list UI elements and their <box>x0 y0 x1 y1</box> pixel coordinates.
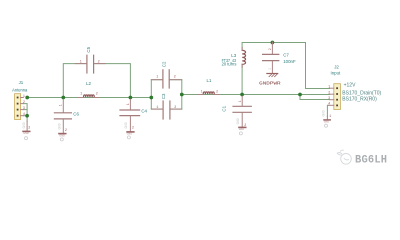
svg-text:1: 1 <box>80 60 82 64</box>
svg-text:J1: J1 <box>19 80 24 85</box>
svg-text:GND: GND <box>237 118 241 124</box>
svg-text:2: 2 <box>174 106 176 110</box>
svg-text:3: 3 <box>328 97 330 101</box>
wire main right net y=94.4 <box>182 94 330 96</box>
node C4 <box>129 96 133 100</box>
wire +12V down to J2 pin1 <box>306 43 330 89</box>
svg-text:1: 1 <box>156 76 158 80</box>
svg-text:C2: C2 <box>162 61 167 67</box>
wire C2 branch <box>151 79 163 81</box>
connector J2 <box>328 64 381 109</box>
svg-text:2: 2 <box>132 127 134 131</box>
svg-text:C6: C6 <box>73 111 79 116</box>
svg-text:GND: GND <box>127 133 133 136</box>
svg-text:2: 2 <box>216 91 218 95</box>
svg-text:GND: GND <box>59 123 63 129</box>
svg-text:Input: Input <box>331 71 342 76</box>
wire tank2 left vertical <box>150 80 152 109</box>
svg-text:2: 2 <box>65 129 67 133</box>
svg-text:2: 2 <box>28 127 30 131</box>
node J1 pin1 <box>25 96 29 100</box>
capacitor C1 <box>221 96 251 112</box>
svg-text:1: 1 <box>23 95 25 99</box>
svg-text:4: 4 <box>328 103 330 107</box>
svg-text:2: 2 <box>174 76 176 80</box>
node J1 pin4 <box>25 114 29 118</box>
inductor L3 (vertical) <box>242 50 245 64</box>
node C6 <box>61 96 65 100</box>
ground GND at J1 <box>23 121 30 139</box>
svg-text:2: 2 <box>23 101 25 105</box>
capacitor C4 <box>120 99 148 115</box>
wire C3 branch <box>151 108 163 110</box>
capacitor C5 <box>75 46 105 73</box>
svg-text:C3: C3 <box>161 93 166 99</box>
svg-text:1: 1 <box>127 103 131 105</box>
svg-text:1: 1 <box>329 115 331 119</box>
svg-text:4: 4 <box>23 113 25 117</box>
svg-text:C5: C5 <box>86 46 91 52</box>
watermark logo <box>337 150 351 164</box>
svg-text:C4: C4 <box>141 108 147 113</box>
svg-text:2: 2 <box>96 92 98 96</box>
svg-text:20 turns: 20 turns <box>222 62 238 67</box>
svg-text:J2: J2 <box>334 64 339 69</box>
node J2 branch <box>298 93 302 97</box>
wire main left net y=97.5 <box>27 97 151 99</box>
wire tank2 right vertical <box>181 80 183 109</box>
capacitor C3 <box>152 93 181 119</box>
svg-text:+12V: +12V <box>344 83 356 89</box>
svg-text:C7: C7 <box>283 53 289 58</box>
node +12V/C7 <box>271 41 275 45</box>
wire C5 branch left vertical <box>63 64 87 98</box>
svg-text:GND: GND <box>239 128 245 131</box>
wire L3 vertical to +12V rail <box>241 64 243 94</box>
svg-text:GND: GND <box>59 134 65 137</box>
svg-text:L1: L1 <box>207 78 212 83</box>
svg-text:100nF: 100nF <box>283 59 296 64</box>
inductor L2 <box>84 95 95 98</box>
ground GND at J2 <box>322 110 331 127</box>
svg-text:BS170_RX(R0): BS170_RX(R0) <box>342 97 377 103</box>
svg-text:3: 3 <box>23 107 25 111</box>
inductor L1 <box>203 92 214 95</box>
svg-text:1: 1 <box>80 92 82 96</box>
svg-text:1: 1 <box>156 106 158 110</box>
node tank2 right <box>180 93 184 97</box>
wire C5 branch right <box>94 64 131 98</box>
wire J1 pins 2-4 bus <box>23 104 27 122</box>
connector J1 <box>12 80 28 119</box>
svg-text:GND: GND <box>322 110 326 116</box>
svg-text:Antenna: Antenna <box>12 87 28 92</box>
node junction dots <box>25 41 302 118</box>
svg-text:2: 2 <box>269 68 273 70</box>
svg-text:1: 1 <box>60 104 64 106</box>
svg-text:2: 2 <box>244 124 246 128</box>
svg-text:2: 2 <box>269 48 273 50</box>
wire J2 pin4 to ground <box>327 105 328 116</box>
ground GNDPWR at C7 <box>259 61 281 86</box>
svg-text:2: 2 <box>98 60 100 64</box>
wire J2 pin3 branch <box>300 95 330 100</box>
capacitor C2 <box>152 61 181 88</box>
node tank2 left <box>149 96 153 100</box>
svg-text:GNDPWR: GNDPWR <box>259 80 281 86</box>
svg-text:GND: GND <box>23 122 27 128</box>
svg-text:BG6LH: BG6LH <box>355 155 387 167</box>
ground GND at C6 <box>59 120 67 141</box>
svg-text:GND: GND <box>324 121 330 124</box>
svg-text:C1: C1 <box>221 105 226 111</box>
node L3/C1 <box>240 93 244 97</box>
svg-text:1: 1 <box>201 91 203 95</box>
ground GND at C4 <box>125 116 134 139</box>
svg-text:L2: L2 <box>86 81 91 86</box>
svg-text:GND: GND <box>125 122 129 128</box>
svg-text:2: 2 <box>328 92 330 96</box>
svg-text:1: 1 <box>328 86 330 90</box>
svg-text:GND: GND <box>23 132 29 135</box>
svg-text:1: 1 <box>239 100 243 102</box>
ground GND at C1 <box>237 113 246 135</box>
capacitor C7 <box>263 42 296 64</box>
capacitor C6 <box>54 99 79 119</box>
